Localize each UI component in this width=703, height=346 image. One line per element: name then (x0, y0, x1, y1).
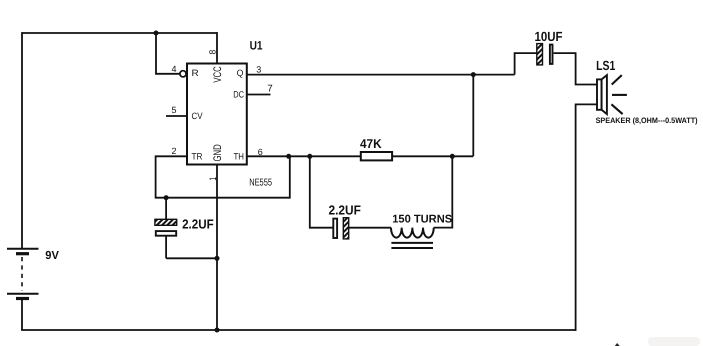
wire speaker bottom return to bottom rail (576, 104, 597, 331)
wire battery bottom lead (21, 299, 23, 330)
scan smudge (648, 337, 700, 346)
node junction TH / TR loop riser (286, 154, 291, 159)
svg-text:47K: 47K (360, 136, 382, 151)
svg-text:5: 5 (172, 105, 177, 115)
wire battery top lead (21, 32, 23, 248)
inductor L1 150 TURNS (391, 228, 434, 248)
wire pin 2 (TR) loop to pin 6 net (156, 156, 290, 197)
node junction TH / C2-L1 branch (307, 154, 312, 159)
svg-text:2.2UF: 2.2UF (182, 216, 214, 231)
node junction output net / TH riser (471, 72, 476, 77)
svg-text:9V: 9V (45, 249, 59, 262)
node junction top rail / reset branch (154, 31, 159, 36)
resistor R1 47K (361, 152, 392, 160)
wire pin 1 (GND) drop to bottom rail (216, 165, 218, 331)
svg-text:VCC: VCC (212, 66, 224, 82)
node junction C1 return / ground drop (215, 256, 220, 261)
svg-text:3: 3 (256, 64, 261, 74)
svg-text:SPEAKER (8,OHM---0.5WATT): SPEAKER (8,OHM---0.5WATT) (596, 116, 698, 125)
wire C1 bottom return to ground drop (166, 257, 217, 259)
wire pin 6 (TH) net horizontal (247, 155, 473, 157)
node junction TR loop / C1 top (164, 195, 169, 200)
wire C2-L1 branch drop (310, 156, 334, 227)
svg-text:GND: GND (212, 144, 224, 161)
svg-text:R: R (192, 68, 200, 78)
wire reset branch: junction down to pin 4 (R) (156, 33, 180, 74)
svg-text:NE555: NE555 (249, 178, 272, 189)
battery BT1 9V (7, 249, 39, 299)
svg-text:TH: TH (234, 151, 245, 161)
wire TH net riser to output net (472, 75, 474, 157)
svg-text:LS1: LS1 (596, 58, 616, 73)
capacitor C3 10UF (horizontal, polarized) (537, 44, 553, 65)
IC U1 NE555 timer body (187, 64, 247, 165)
wire output net riser to C3 (515, 53, 537, 75)
wire L1 to TH riser (434, 156, 453, 227)
svg-text:150 TURNS: 150 TURNS (392, 213, 453, 225)
svg-text:10UF: 10UF (535, 29, 563, 44)
wire C2 to L1 (349, 227, 391, 229)
wire VCC drop to pin 8 (216, 32, 218, 63)
wire pin 5 (CV) stub (166, 115, 187, 117)
wire C3 to speaker top (554, 53, 597, 84)
pin 4 inverter bubble (180, 71, 186, 77)
svg-text:DC: DC (233, 90, 244, 100)
svg-text:7: 7 (267, 84, 272, 95)
svg-text:2.2UF: 2.2UF (329, 203, 361, 218)
node junction TH / L1 riser (450, 154, 455, 159)
svg-text:Q: Q (237, 68, 244, 78)
wire top rail from battery + to VCC drop (22, 32, 217, 34)
speaker LS1 (597, 75, 627, 114)
node junction bottom rail / ground drop (215, 328, 220, 333)
capacitor C2 2.2UF (horizontal, polarized) (333, 218, 348, 239)
wire pin 7 (DC) stub (247, 94, 271, 96)
svg-text:U1: U1 (250, 39, 263, 53)
wire bottom rail (21, 329, 576, 331)
svg-text:TR: TR (192, 151, 203, 161)
svg-text:CV: CV (192, 111, 204, 121)
wire pin 3 (Q) output net (247, 74, 515, 76)
cursor artifact mark (614, 343, 620, 346)
svg-text:2: 2 (172, 146, 177, 156)
capacitor C1 2.2UF (vertical, polarized) (155, 198, 177, 259)
svg-text:4: 4 (172, 64, 177, 74)
svg-text:8: 8 (208, 50, 218, 55)
